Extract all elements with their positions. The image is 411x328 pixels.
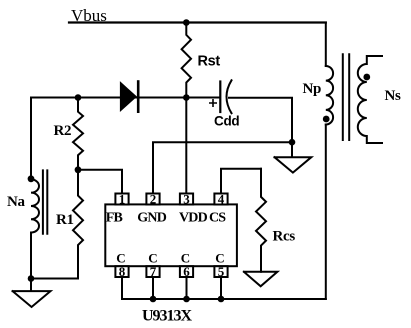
svg-text:FB: FB [106,210,123,225]
svg-text:CS: CS [209,210,226,225]
resistor R1 [73,170,83,279]
ground G3 [244,272,278,287]
wire VDD drop [185,98,187,194]
wire Vbus top rail [69,21,326,23]
node Vbus/Rst junction [183,19,190,26]
svg-text:4: 4 [218,191,225,206]
svg-text:Rcs: Rcs [273,229,296,245]
capacitor Cdd plate left [219,82,221,113]
svg-text:Cdd: Cdd [214,114,239,129]
svg-text:Na: Na [7,194,26,210]
wire pin6 lead [186,277,188,299]
svg-text:U9313X: U9313X [142,308,193,325]
svg-text:1: 1 [119,191,126,206]
svg-text:R2: R2 [54,123,72,139]
pin 7 pad [146,266,159,277]
svg-text:GND: GND [137,210,166,225]
node pin7 bus junction [150,296,157,303]
resistor Rst [182,23,191,98]
node R2 top junction [75,94,82,101]
svg-text:C: C [181,250,190,265]
wire pin7 lead [152,277,154,299]
wire Cdd to right drop [229,98,292,142]
transformer core [343,54,349,140]
svg-text:C: C [215,250,224,265]
wire GND rail [153,142,292,193]
pin 1 pad [115,194,128,205]
pin 6 pad [180,266,193,277]
node bottom-left junction [28,275,35,282]
inductor winding Na [31,179,39,232]
resistor R2 [73,98,83,170]
pin 2 pad [146,194,159,205]
node Na phase dot [28,175,35,182]
svg-text:C: C [148,250,157,265]
pin 5 pad [214,266,227,277]
pin 4 pad [214,194,227,205]
ground G1 bottom-left [13,279,51,308]
node pin5 bus junction [218,296,225,303]
wire Na bottom lead [30,233,32,279]
transformer winding Ns [358,56,382,143]
node Np phase dot [323,116,330,123]
svg-text:VDD: VDD [179,210,208,225]
svg-text:Rst: Rst [198,54,221,70]
resistor Rcs [256,169,266,272]
node pin6 bus junction [183,296,190,303]
wire pin5 lead [220,277,222,299]
wire bottom-left [31,278,78,280]
svg-text:R1: R1 [56,212,74,228]
pin 3 pad [180,194,193,205]
wire left rail [30,98,32,180]
node Ns phase dot [363,74,370,81]
capacitor Cdd polarity plus [210,100,216,106]
wire diode row [31,97,220,99]
wire Np top lead [325,23,327,67]
capacitor Cdd plate right (curved) [227,80,232,113]
svg-text:3: 3 [183,191,190,206]
ground G2 [275,142,312,172]
svg-text:C: C [116,250,125,265]
wire pin8 lead [121,277,123,299]
diode D1 [120,82,136,111]
wire Np bottom lead to bus [325,125,327,300]
pin 8 pad [115,266,128,277]
svg-text:2: 2 [150,191,157,206]
svg-text:Np: Np [303,81,322,97]
wire bottom bus [122,298,326,300]
transformer winding Np [326,66,333,125]
Na core lines [43,170,47,233]
svg-text:Ns: Ns [385,88,402,104]
node GND rail / ground junction [289,139,296,146]
wire FB [78,170,122,194]
IC U1 body [105,204,237,266]
node Rst bottom junction [183,94,190,101]
svg-text:Vbus: Vbus [71,6,107,25]
node R2/R1/FB junction [75,166,82,173]
wire CS to Rcs [221,169,261,194]
